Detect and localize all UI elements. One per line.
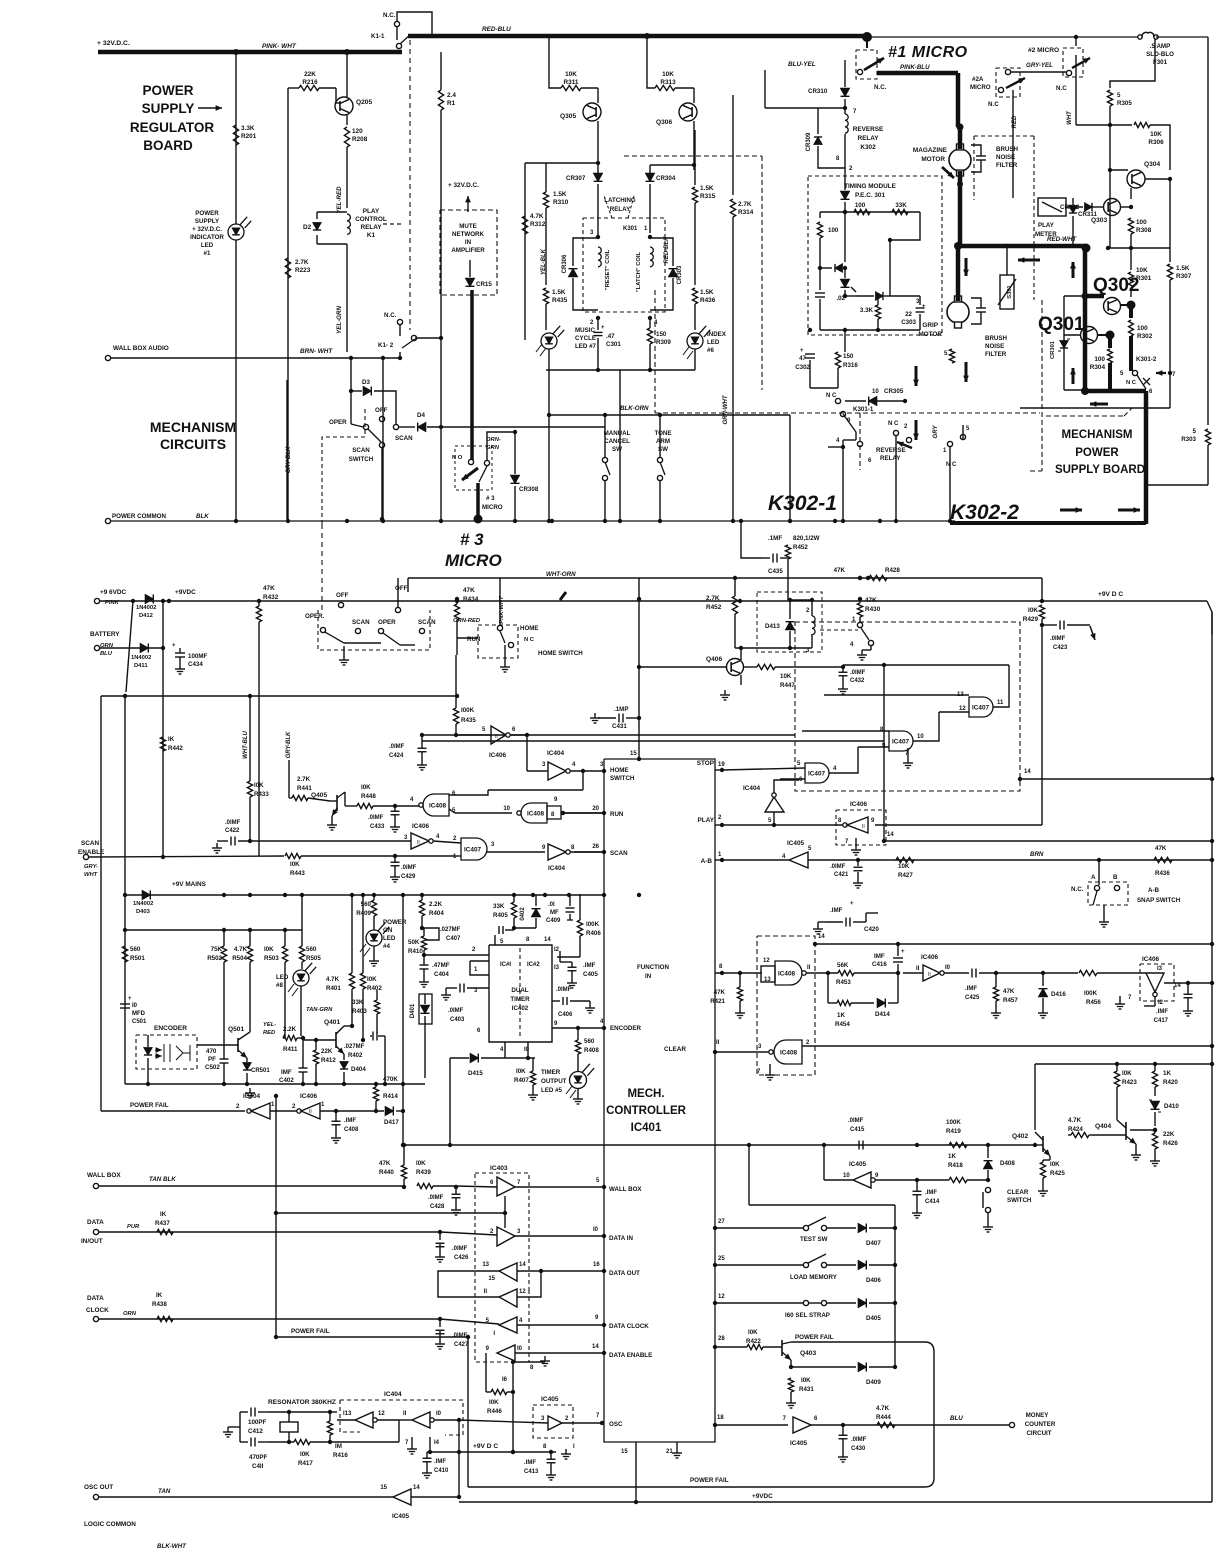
svg-text:K301-1: K301-1 <box>853 406 874 413</box>
svg-text:II: II <box>916 966 920 972</box>
svg-text:33K: 33K <box>895 202 907 209</box>
svg-text:.0IMF: .0IMF <box>848 1118 864 1124</box>
svg-text:I0: I0 <box>945 965 951 971</box>
wire thick pink-blu <box>877 71 958 76</box>
svg-text:IC406: IC406 <box>489 752 506 759</box>
svg-text:N C: N C <box>888 421 899 427</box>
svg-text:NOISE: NOISE <box>985 343 1004 350</box>
svg-text:R308: R308 <box>1136 227 1152 234</box>
svg-text:MF: MF <box>550 910 559 916</box>
svg-text:Q301: Q301 <box>1038 314 1085 335</box>
svg-text:K302-1: K302-1 <box>768 492 837 515</box>
svg-text:SCAN: SCAN <box>395 435 413 442</box>
wire <box>1211 612 1213 1064</box>
wire blu-yel col <box>764 70 766 108</box>
svg-text:+9V D C: +9V D C <box>473 1443 498 1450</box>
box dashed IC407 cluster <box>795 622 1020 791</box>
wire q403 collector <box>791 1341 925 1343</box>
box mech psb dashed <box>1041 300 1043 471</box>
svg-text:RED-BLU: RED-BLU <box>482 26 511 33</box>
diode D2 <box>313 223 321 230</box>
svg-text:C404: C404 <box>434 971 449 978</box>
svg-text:R505: R505 <box>306 955 321 962</box>
svg-text:C302: C302 <box>795 364 810 371</box>
svg-text:II: II <box>807 965 811 971</box>
wire <box>126 601 133 692</box>
svg-text:II: II <box>928 972 931 978</box>
svg-text:GRN-WHT: GRN-WHT <box>723 394 729 424</box>
svg-text:R407: R407 <box>514 1077 529 1084</box>
svg-text:I00K: I00K <box>461 707 475 714</box>
svg-text:2.2K: 2.2K <box>283 1026 297 1033</box>
svg-text:C406: C406 <box>558 1012 573 1018</box>
svg-text:R448: R448 <box>361 793 376 800</box>
svg-text:22K: 22K <box>1163 1131 1175 1138</box>
svg-text:.IMF: .IMF <box>925 1190 937 1196</box>
svg-text:100: 100 <box>1136 219 1147 226</box>
svg-text:N C: N C <box>946 462 957 468</box>
IC401 box <box>604 759 715 1442</box>
svg-text:BLK-WHT: BLK-WHT <box>157 1543 187 1550</box>
svg-text:CONTROL: CONTROL <box>355 216 387 223</box>
svg-text:47K: 47K <box>714 989 726 996</box>
svg-text:.0IMF: .0IMF <box>448 1008 464 1014</box>
svg-text:470PF: 470PF <box>249 1454 267 1461</box>
svg-text:R414: R414 <box>383 1093 398 1100</box>
svg-text:IC407: IC407 <box>808 771 825 778</box>
svg-text:OPER: OPER <box>329 419 347 426</box>
svg-text:DATA CLOCK: DATA CLOCK <box>609 1323 649 1330</box>
wire RED-BLU bus <box>408 34 866 39</box>
svg-text:C427: C427 <box>454 1342 469 1348</box>
svg-text:R439: R439 <box>416 1169 431 1176</box>
svg-text:2.2K: 2.2K <box>429 901 443 908</box>
svg-text:+: + <box>922 304 926 310</box>
svg-text:R304: R304 <box>1090 364 1106 371</box>
svg-text:PUR: PUR <box>127 1224 140 1230</box>
wire <box>883 665 885 841</box>
svg-text:OFF: OFF <box>336 592 349 599</box>
svg-text:D409: D409 <box>866 1379 881 1386</box>
svg-text:560: 560 <box>306 946 317 953</box>
svg-text:1N4002: 1N4002 <box>131 655 151 661</box>
wire <box>287 357 289 359</box>
svg-text:OPER.: OPER. <box>305 613 325 620</box>
svg-text:SCAN: SCAN <box>81 840 99 847</box>
svg-text:D411: D411 <box>134 663 148 669</box>
svg-text:IC401: IC401 <box>631 1122 662 1134</box>
svg-text:C402: C402 <box>279 1077 294 1084</box>
svg-text:MANUAL: MANUAL <box>604 430 631 437</box>
svg-text:R442: R442 <box>168 745 183 752</box>
svg-text:WALL BOX AUDIO: WALL BOX AUDIO <box>113 345 169 352</box>
svg-text:RUN: RUN <box>610 811 624 818</box>
wire power common line <box>111 520 955 522</box>
wire <box>635 1442 637 1502</box>
svg-text:10K: 10K <box>565 71 577 78</box>
svg-text:10K: 10K <box>780 673 792 680</box>
svg-text:14: 14 <box>1174 983 1181 989</box>
svg-text:R312: R312 <box>530 221 546 228</box>
svg-text:LED #7: LED #7 <box>575 343 597 350</box>
svg-text:II: II <box>484 1289 488 1295</box>
transistor Q406 <box>727 659 744 676</box>
svg-text:#1: #1 <box>204 250 211 257</box>
svg-text:CR15: CR15 <box>476 281 492 288</box>
svg-text:28: 28 <box>718 1336 725 1342</box>
svg-text:R310: R310 <box>553 199 569 206</box>
svg-text:C431: C431 <box>612 723 627 730</box>
capacitor brush filter 1 <box>958 127 963 149</box>
wire <box>346 52 348 97</box>
svg-text:R436: R436 <box>700 297 716 304</box>
wire <box>549 414 790 416</box>
svg-text:OUTPUT: OUTPUT <box>541 1078 567 1085</box>
svg-text:I0: I0 <box>436 1411 442 1417</box>
arrow up thick <box>1072 262 1075 278</box>
svg-text:R316: R316 <box>843 362 858 369</box>
svg-text:R425: R425 <box>1050 1170 1065 1177</box>
svg-text:11: 11 <box>997 700 1004 706</box>
wire YEL-BLK column <box>525 162 598 164</box>
svg-text:II: II <box>862 824 865 830</box>
svg-text:BOARD: BOARD <box>143 138 193 153</box>
svg-text:.0IMF: .0IMF <box>368 815 384 821</box>
svg-text:BRUSH: BRUSH <box>985 335 1008 342</box>
diode D409 <box>858 1363 866 1372</box>
svg-text:C403: C403 <box>450 1017 465 1023</box>
svg-text:Q403: Q403 <box>800 1350 816 1357</box>
svg-text:.IMF: .IMF <box>434 1459 446 1465</box>
svg-text:I0K: I0K <box>300 1451 310 1458</box>
svg-text:II: II <box>403 1411 407 1417</box>
svg-text:R303: R303 <box>1181 436 1196 443</box>
svg-text:SWITCH: SWITCH <box>610 775 635 782</box>
capacitor .02 <box>815 292 825 294</box>
svg-text:POWER COMMON: POWER COMMON <box>112 513 166 520</box>
svg-text:I0K: I0K <box>489 1399 499 1406</box>
wire <box>1153 1128 1157 1132</box>
svg-text:2.7K: 2.7K <box>738 201 752 208</box>
svg-text:R501: R501 <box>130 955 145 962</box>
svg-text:4.7K: 4.7K <box>234 946 248 953</box>
svg-text:POWER: POWER <box>195 210 219 217</box>
wire +9vdc mid <box>427 1451 556 1453</box>
wire <box>844 212 846 262</box>
svg-text:RED-BLK: RED-BLK <box>664 236 670 264</box>
svg-text:YEL-RED: YEL-RED <box>336 186 343 214</box>
svg-text:STOP: STOP <box>697 760 715 767</box>
svg-text:10K: 10K <box>662 71 674 78</box>
wire <box>619 370 621 521</box>
svg-text:BLK: BLK <box>196 513 209 520</box>
svg-text:R409: R409 <box>356 910 371 917</box>
svg-text:1K: 1K <box>837 1012 845 1019</box>
svg-text:1N4002: 1N4002 <box>133 901 153 907</box>
svg-text:IC408: IC408 <box>429 803 446 810</box>
svg-text:+9V D C: +9V D C <box>1098 591 1123 598</box>
svg-text:C303: C303 <box>901 319 916 326</box>
svg-text:CR308: CR308 <box>519 486 539 493</box>
svg-text:.0IMF: .0IMF <box>1050 636 1066 642</box>
wire <box>741 521 762 558</box>
wire <box>235 52 237 224</box>
svg-text:A-B: A-B <box>701 858 713 865</box>
svg-text:R444: R444 <box>876 1414 891 1421</box>
svg-text:R315: R315 <box>700 193 716 200</box>
svg-text:1K: 1K <box>1163 1070 1171 1077</box>
svg-text:R431: R431 <box>799 1386 814 1393</box>
capacitor C430 <box>839 1434 848 1436</box>
svg-text:R443: R443 <box>290 870 305 877</box>
diode CR306 <box>573 238 598 266</box>
svg-text:MICRO: MICRO <box>445 551 502 570</box>
capacitor C423 <box>1041 619 1043 625</box>
svg-text:LATCHING: LATCHING <box>604 197 636 204</box>
svg-text:10K: 10K <box>1136 267 1148 274</box>
svg-text:TAN: TAN <box>158 1488 171 1495</box>
svg-text:SWITCH: SWITCH <box>349 456 374 463</box>
svg-text:I13: I13 <box>343 1411 352 1417</box>
wire thick <box>1085 389 1146 394</box>
svg-text:R420: R420 <box>1163 1079 1178 1086</box>
svg-text:C429: C429 <box>401 874 416 880</box>
wire <box>1109 125 1111 170</box>
svg-text:TEST SW: TEST SW <box>800 1236 828 1243</box>
resistor R315 <box>694 130 696 185</box>
svg-text:820,1/2W: 820,1/2W <box>793 535 820 542</box>
svg-text:5: 5 <box>1193 428 1197 435</box>
svg-text:I0K: I0K <box>748 1329 758 1336</box>
svg-text:15: 15 <box>488 1276 495 1282</box>
svg-text:.0IMF: .0IMF <box>452 1333 468 1339</box>
svg-text:47K: 47K <box>834 567 846 574</box>
svg-text:I60 SEL STRAP: I60 SEL STRAP <box>785 1312 830 1319</box>
svg-text:IC406: IC406 <box>1142 956 1159 963</box>
svg-text:14: 14 <box>544 937 551 943</box>
svg-text:R435: R435 <box>552 297 568 304</box>
svg-text:C417: C417 <box>1154 1018 1169 1024</box>
svg-text:I0: I0 <box>132 1003 138 1009</box>
svg-text:.0IMF: .0IMF <box>830 864 846 870</box>
svg-text:"RESET" COIL: "RESET" COIL <box>605 249 611 290</box>
diode CR308 <box>511 475 520 483</box>
arrow left thick <box>1090 403 1108 406</box>
svg-text:C426: C426 <box>454 1255 469 1261</box>
wire thick <box>1083 246 1088 391</box>
wire q402 base <box>988 1144 1035 1146</box>
svg-text:R411: R411 <box>283 1046 298 1053</box>
svg-text:CR311: CR311 <box>1078 211 1097 218</box>
svg-text:D410: D410 <box>1164 1103 1179 1110</box>
svg-text:MUSIC: MUSIC <box>575 327 595 334</box>
fuse F301 <box>1138 35 1142 39</box>
svg-text:I0K: I0K <box>367 976 377 983</box>
svg-text:+ 32V.D.C.: + 32V.D.C. <box>192 226 222 233</box>
svg-text:100PF: 100PF <box>248 1419 266 1426</box>
svg-text:IC#I: IC#I <box>500 962 511 968</box>
svg-text:.027MF: .027MF <box>440 927 461 933</box>
svg-text:OSC: OSC <box>609 1421 623 1428</box>
resistor 100 v <box>819 212 821 218</box>
svg-text:R311: R311 <box>564 79 579 86</box>
svg-text:Q501: Q501 <box>228 1026 244 1033</box>
svg-text:I0: I0 <box>593 1227 599 1233</box>
diode CR307 <box>594 173 603 181</box>
wire right vert <box>1211 1064 1213 1502</box>
svg-text:IC406: IC406 <box>850 801 867 808</box>
svg-text:DATA: DATA <box>87 1219 104 1226</box>
svg-text:IN: IN <box>465 239 472 246</box>
svg-text:21: 21 <box>666 1449 673 1455</box>
resistor R316 <box>835 352 840 368</box>
svg-text:15: 15 <box>621 1449 628 1455</box>
svg-text:R208: R208 <box>352 136 368 143</box>
svg-text:R313: R313 <box>660 79 676 86</box>
svg-text:R429: R429 <box>1023 616 1039 623</box>
svg-text:IM: IM <box>335 1443 342 1450</box>
svg-text:REGULATOR: REGULATOR <box>130 120 215 135</box>
box dashed big right <box>654 290 656 413</box>
resistor R307 <box>1169 248 1171 262</box>
svg-text:I0: I0 <box>517 1346 523 1352</box>
svg-text:HOME SWITCH: HOME SWITCH <box>538 650 583 657</box>
svg-text:OPER: OPER <box>378 619 396 626</box>
svg-text:Q304: Q304 <box>1144 161 1160 168</box>
svg-text:C433: C433 <box>370 824 385 830</box>
svg-text:MUTE: MUTE <box>459 223 477 230</box>
terminal MONEY COUNTER <box>1009 1422 1014 1427</box>
svg-text:10: 10 <box>843 1173 850 1179</box>
wire thick <box>958 184 963 246</box>
svg-text:K301-2: K301-2 <box>1136 356 1157 363</box>
svg-text:CR305: CR305 <box>884 388 904 395</box>
svg-text:R403: R403 <box>352 1008 367 1015</box>
svg-text:CIRCUITS: CIRCUITS <box>160 436 226 452</box>
svg-text:14: 14 <box>413 1485 420 1491</box>
wire <box>1010 71 1066 73</box>
svg-text:I00K: I00K <box>1084 990 1098 997</box>
svg-text:R417: R417 <box>298 1460 313 1467</box>
svg-text:IC405: IC405 <box>541 1396 559 1403</box>
svg-text:N.C.: N.C. <box>1071 886 1084 893</box>
svg-text:IC406: IC406 <box>300 1093 317 1100</box>
svg-text:.0IMF: .0IMF <box>401 865 417 871</box>
svg-text:56K: 56K <box>837 962 849 969</box>
svg-text:R441: R441 <box>297 785 312 792</box>
svg-text:10: 10 <box>503 806 510 812</box>
svg-text:SUPPLY: SUPPLY <box>142 101 195 116</box>
svg-text:C412: C412 <box>248 1428 263 1435</box>
svg-text:R435: R435 <box>461 717 476 724</box>
diode CR304 <box>646 173 655 181</box>
svg-text:.0IMF: .0IMF <box>556 987 572 993</box>
wire play row <box>722 824 843 826</box>
capacitor C435 <box>772 554 774 563</box>
svg-text:CLEAR: CLEAR <box>664 1046 686 1053</box>
svg-text:GRIP: GRIP <box>922 322 938 329</box>
svg-text:50K: 50K <box>408 939 420 946</box>
svg-text:16: 16 <box>593 1262 600 1268</box>
arrow up <box>1072 262 1075 278</box>
diode D412 <box>145 595 153 604</box>
svg-text:POWER FAIL: POWER FAIL <box>130 1102 169 1109</box>
svg-text:INDICATOR: INDICATOR <box>190 234 224 241</box>
svg-text:SWITCH: SWITCH <box>1007 1197 1032 1204</box>
svg-text:D404: D404 <box>351 1066 366 1073</box>
svg-text:D415: D415 <box>468 1070 483 1077</box>
svg-text:R412: R412 <box>321 1057 336 1064</box>
relay reset coil <box>598 247 601 254</box>
svg-text:MOTOR: MOTOR <box>921 156 945 163</box>
svg-text:100: 100 <box>1137 325 1148 332</box>
svg-text:22K: 22K <box>321 1048 333 1055</box>
wire <box>286 380 288 521</box>
svg-text:12: 12 <box>718 1294 725 1300</box>
wire <box>346 244 348 352</box>
svg-text:MONEY: MONEY <box>1026 1412 1050 1419</box>
svg-text:OSC OUT: OSC OUT <box>84 1484 113 1491</box>
wire <box>457 637 478 639</box>
wire dashed K1 link <box>409 40 411 220</box>
wire <box>275 1095 277 1097</box>
svg-text:RED: RED <box>263 1030 276 1036</box>
svg-text:LOGIC COMMON: LOGIC COMMON <box>84 1521 136 1528</box>
capacitor C432 <box>841 665 845 669</box>
svg-text:1.5K: 1.5K <box>1176 265 1190 272</box>
switch #2 micro <box>1063 48 1083 77</box>
LED #6 index <box>687 333 703 349</box>
wire #3 micro feed (thick) <box>470 290 474 460</box>
svg-text:SCAN: SCAN <box>352 619 370 626</box>
svg-text:MECHANISM: MECHANISM <box>150 419 236 435</box>
svg-text:R410: R410 <box>408 948 423 955</box>
svg-text:.027MF: .027MF <box>344 1044 365 1050</box>
svg-text:10K: 10K <box>898 863 910 870</box>
svg-text:#4: #4 <box>383 943 390 950</box>
diode D403 <box>142 891 150 900</box>
box dashed IC406 g <box>1140 964 1174 1001</box>
svg-text:TONE: TONE <box>654 430 671 437</box>
svg-text:IC408: IC408 <box>527 811 544 818</box>
svg-text:OFF: OFF <box>395 585 408 592</box>
svg-text:N C: N C <box>1126 380 1137 386</box>
diode CR303 <box>650 238 673 266</box>
svg-text:.IMF: .IMF <box>583 962 596 969</box>
svg-text:N O: N O <box>452 455 463 461</box>
wire encoder bottom <box>125 1083 425 1085</box>
svg-text:P.E.C. 301: P.E.C. 301 <box>855 192 886 199</box>
svg-text:R426: R426 <box>1163 1140 1178 1147</box>
svg-text:14: 14 <box>818 934 825 940</box>
svg-text:R423: R423 <box>1122 1079 1137 1086</box>
wire WHT <box>1075 55 1077 125</box>
svg-text:RELAY: RELAY <box>857 135 879 142</box>
svg-text:MICRO: MICRO <box>970 84 991 91</box>
svg-text:MICRO: MICRO <box>482 504 503 511</box>
svg-text:LED #5: LED #5 <box>541 1087 563 1094</box>
svg-text:R216: R216 <box>302 79 318 86</box>
svg-text:D416: D416 <box>1051 991 1066 998</box>
resistor R308 <box>1128 218 1133 234</box>
svg-text:.IMF: .IMF <box>524 1460 536 1466</box>
svg-text:.IMF: .IMF <box>965 986 977 992</box>
svg-text:.5 AMP: .5 AMP <box>1150 43 1170 50</box>
svg-text:I0K: I0K <box>1122 1070 1132 1077</box>
svg-text:CYCLE: CYCLE <box>575 335 596 342</box>
svg-text:INDEX: INDEX <box>707 331 727 338</box>
LED #7 music cycle <box>541 333 557 349</box>
